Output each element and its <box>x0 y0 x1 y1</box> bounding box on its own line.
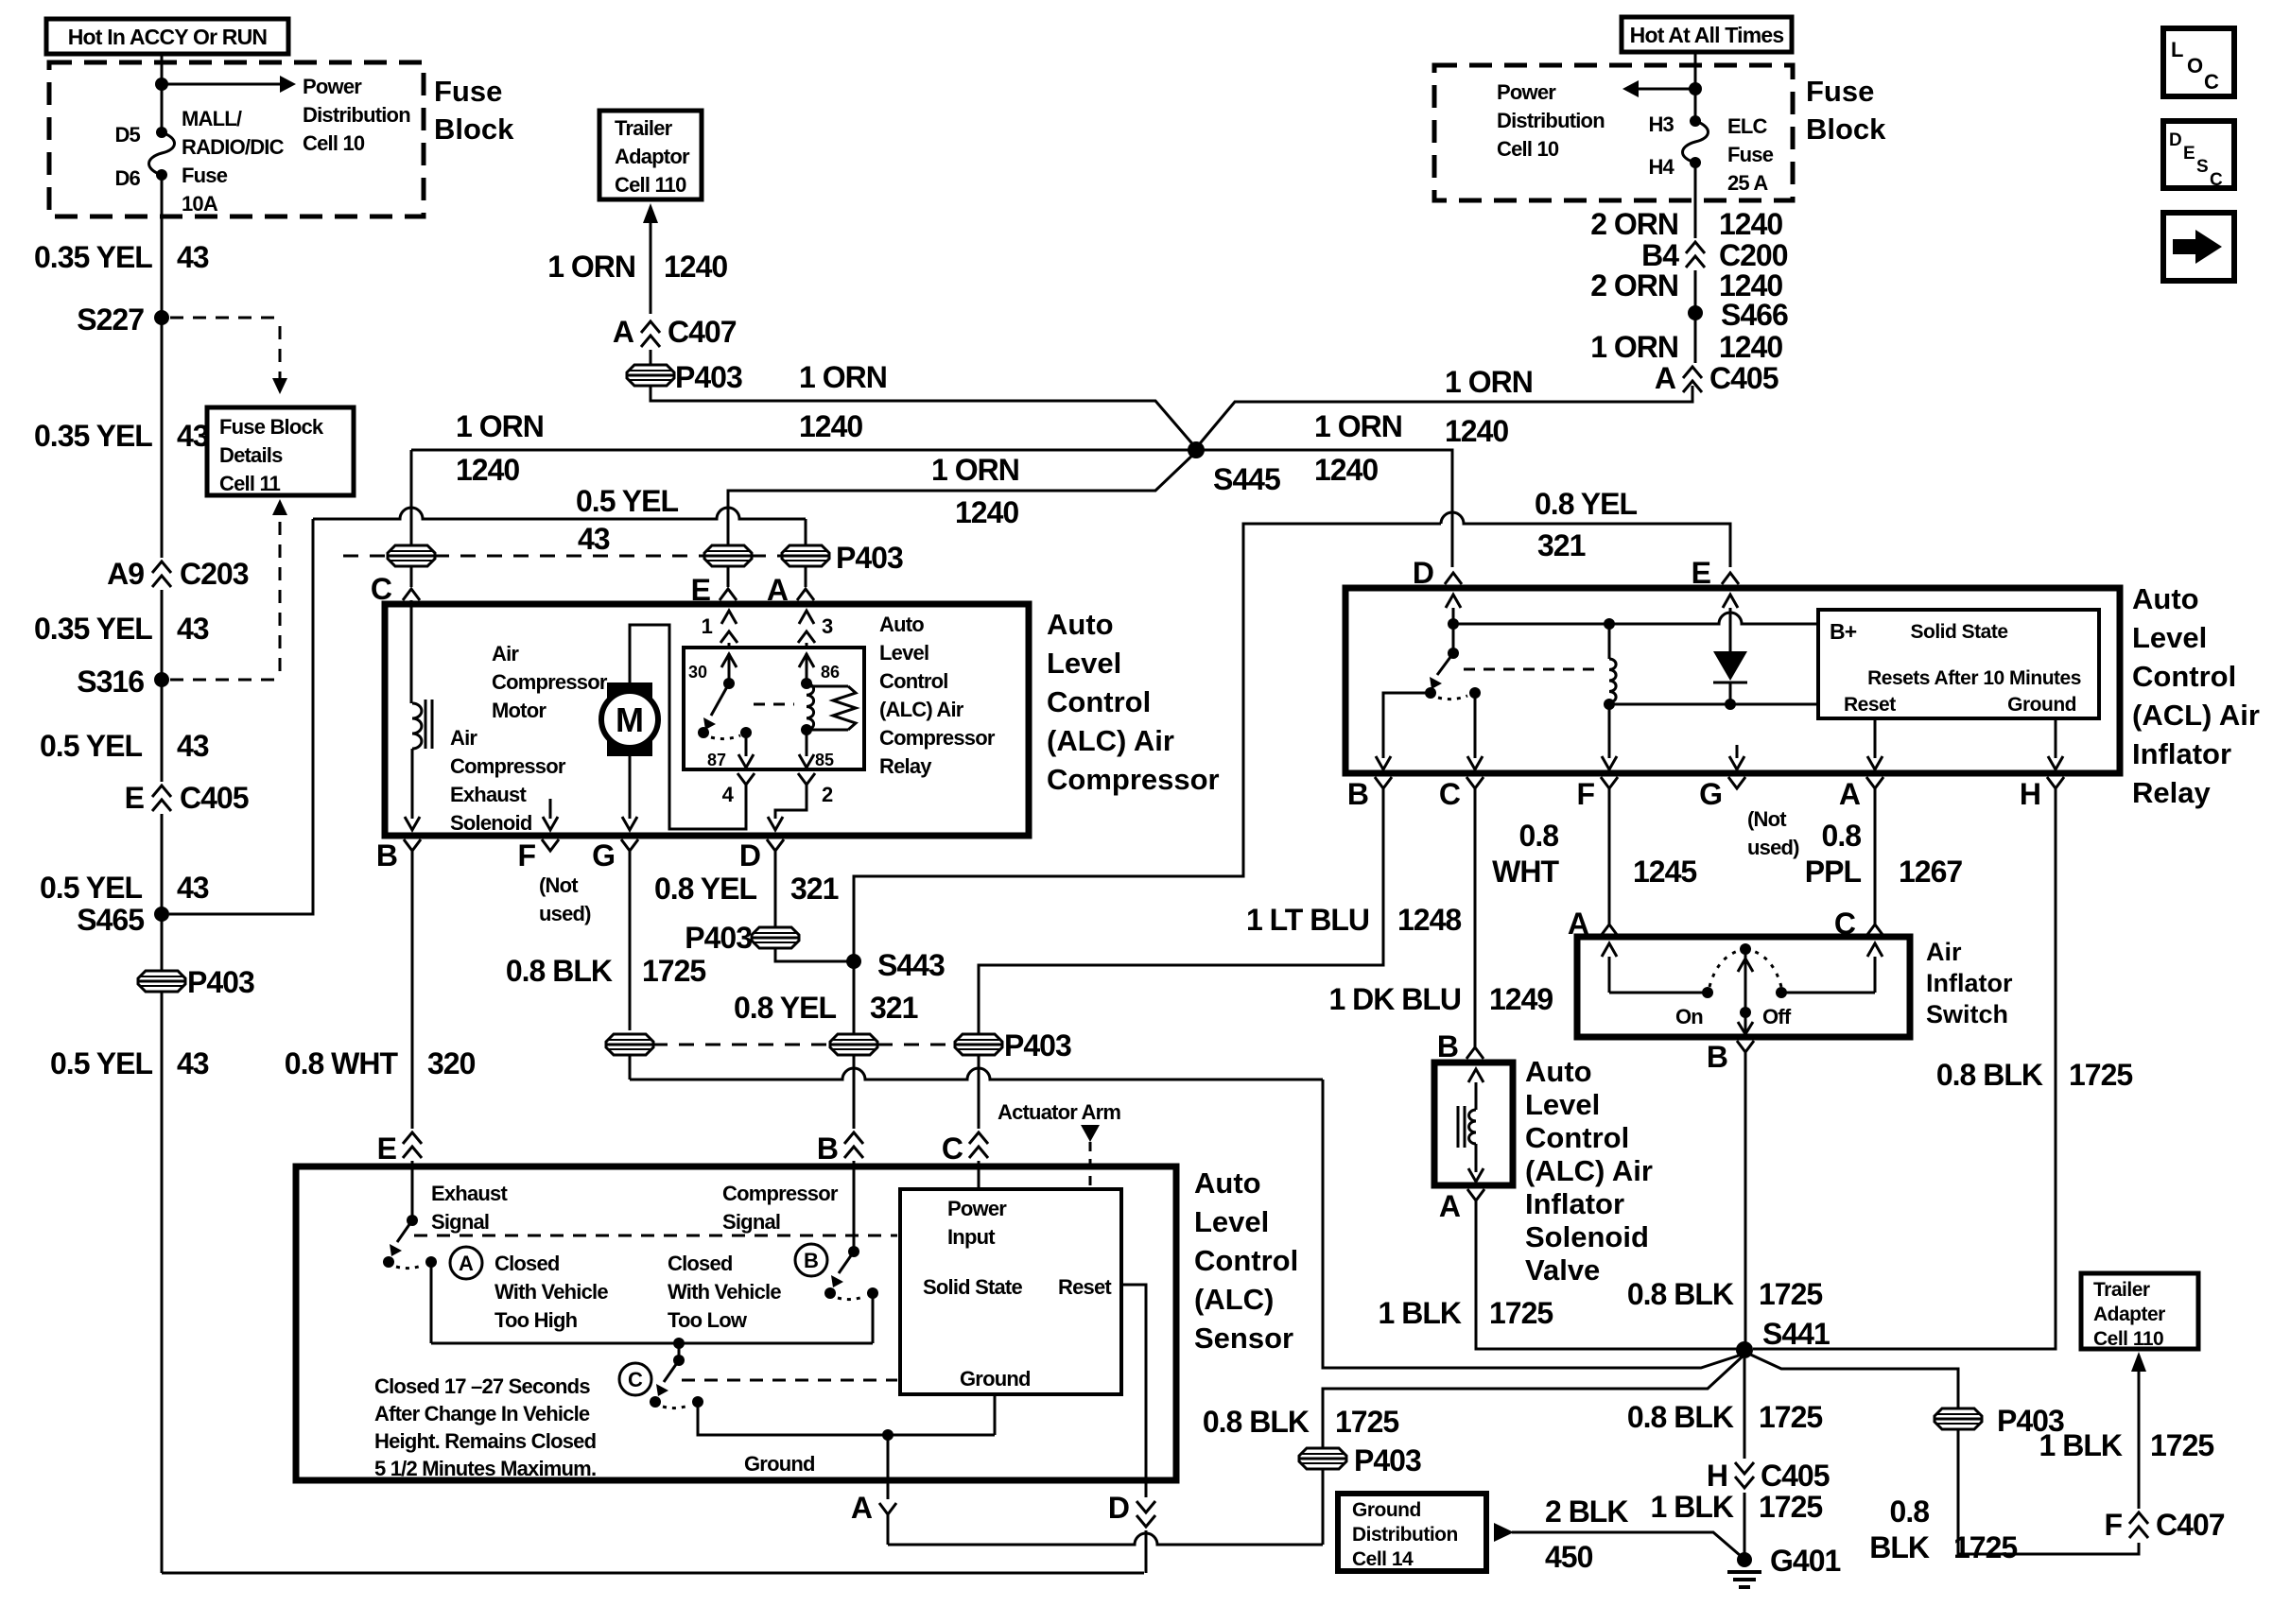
svg-text:P403: P403 <box>187 965 254 999</box>
icon LOC <box>2163 28 2234 96</box>
svg-text:Input: Input <box>947 1225 996 1249</box>
connector inline sensor C <box>969 1132 988 1144</box>
svg-text:0.8: 0.8 <box>1519 819 1559 853</box>
relay solid state box <box>1818 610 2099 718</box>
svg-text:Cell 14: Cell 14 <box>1352 1548 1414 1570</box>
svg-text:C407: C407 <box>668 315 737 349</box>
svg-text:B: B <box>1707 1040 1727 1074</box>
svg-text:C: C <box>942 1132 963 1166</box>
compressor pin B fork <box>404 839 421 851</box>
wire pin4 to motor loop <box>630 625 746 829</box>
connector C405 pin H <box>1735 1462 1754 1474</box>
svg-text:F: F <box>517 838 535 872</box>
harness dashed P403 row2 <box>652 1044 830 1046</box>
wire sensor ground to S441 <box>1323 1355 1744 1449</box>
relay pin D fork <box>1445 573 1462 584</box>
svg-text:1 ORN: 1 ORN <box>1445 365 1533 399</box>
wire sensor A contact down <box>430 1262 433 1343</box>
svg-text:0.8 YEL: 0.8 YEL <box>734 991 836 1025</box>
svg-text:D: D <box>1108 1491 1129 1525</box>
splice S316 <box>154 672 169 687</box>
wire motor to G <box>629 756 632 819</box>
relay pin 85 wire <box>801 724 812 735</box>
svg-text:43: 43 <box>578 522 610 556</box>
ALC sensor box <box>296 1166 1176 1480</box>
svg-text:Fuse: Fuse <box>1806 75 1874 108</box>
relay internal bus B+ <box>1448 618 1459 630</box>
svg-text:0.8 YEL: 0.8 YEL <box>1535 487 1637 521</box>
svg-text:1267: 1267 <box>1899 855 1962 889</box>
wire S441 down to ground <box>1744 1358 1746 1459</box>
svg-text:Air: Air <box>450 726 477 750</box>
svg-text:C405: C405 <box>1761 1459 1830 1493</box>
svg-text:1 ORN: 1 ORN <box>1590 330 1678 364</box>
svg-text:Inflator: Inflator <box>2132 737 2231 770</box>
svg-text:A: A <box>613 315 634 349</box>
svg-text:D5: D5 <box>114 123 140 147</box>
svg-text:C: C <box>1834 907 1856 941</box>
svg-text:E: E <box>2183 144 2195 164</box>
svg-text:1240: 1240 <box>1314 453 1378 487</box>
compressor pin F fork <box>542 839 559 851</box>
svg-text:H: H <box>1707 1459 1727 1493</box>
svg-text:A: A <box>767 573 789 607</box>
wire 2 BLK 450 from ground distribution <box>1494 1523 1514 1542</box>
compressor relay pin 2 fork <box>798 773 815 785</box>
svg-text:Ground: Ground <box>1352 1499 1421 1521</box>
svg-text:2: 2 <box>822 783 833 806</box>
svg-text:Solenoid: Solenoid <box>1525 1220 1649 1253</box>
switch dashed arcs <box>1709 951 1738 987</box>
circle C <box>619 1363 651 1395</box>
sensor switch C arm <box>664 1360 679 1382</box>
svg-text:F: F <box>2104 1508 2122 1542</box>
wire D to S443 <box>775 947 848 961</box>
svg-text:Adaptor: Adaptor <box>615 145 690 168</box>
svg-text:(ALC) Air: (ALC) Air <box>879 698 964 721</box>
wire switch B to S441 <box>1744 1052 1747 1343</box>
ALC air inflator solenoid valve box <box>1434 1063 1513 1185</box>
svg-text:S445: S445 <box>1213 462 1280 496</box>
svg-text:0.8: 0.8 <box>1822 819 1862 853</box>
svg-text:O: O <box>2187 54 2203 78</box>
svg-text:321: 321 <box>870 991 918 1025</box>
svg-text:0.8 BLK: 0.8 BLK <box>1203 1405 1310 1439</box>
svg-text:Motor: Motor <box>492 699 547 722</box>
svg-text:S: S <box>2196 157 2209 177</box>
relay switch dashed contact <box>711 735 740 739</box>
svg-text:Auto: Auto <box>1525 1055 1592 1088</box>
svg-text:Block: Block <box>1806 112 1886 146</box>
svg-text:Trailer: Trailer <box>615 116 673 140</box>
svg-text:Level: Level <box>1194 1205 1269 1238</box>
connector C407 pin F <box>2129 1512 2148 1524</box>
compressor pin D fork <box>767 839 784 851</box>
svg-text:Cell 10: Cell 10 <box>1497 137 1559 161</box>
connector P403 on sensor ground <box>1299 1448 1346 1469</box>
svg-text:Power: Power <box>303 75 362 98</box>
splice S227 <box>154 310 169 325</box>
svg-text:25 A: 25 A <box>1727 171 1768 195</box>
svg-text:S316: S316 <box>77 665 144 699</box>
switch pivot <box>1740 943 1751 955</box>
wire arrow to Power Distribution (right) <box>1639 88 1695 91</box>
wire solid state ground <box>994 1394 997 1435</box>
svg-text:Control: Control <box>1525 1121 1629 1154</box>
svg-text:1240: 1240 <box>1719 207 1782 241</box>
svg-text:1725: 1725 <box>1953 1530 2017 1564</box>
svg-text:G: G <box>1699 777 1722 811</box>
sensor switch B (compressor) <box>848 1246 859 1257</box>
splice S465 <box>154 907 169 922</box>
svg-text:5 1/2 Minutes Maximum.: 5 1/2 Minutes Maximum. <box>374 1457 596 1480</box>
svg-text:1240: 1240 <box>799 409 862 443</box>
wire 2 ORN 1240 (2) <box>1694 270 1697 307</box>
svg-text:0.5 YEL: 0.5 YEL <box>40 871 142 905</box>
svg-text:Inflator: Inflator <box>1525 1187 1624 1220</box>
svg-text:Compressor: Compressor <box>1047 763 1220 796</box>
connector P403 on sensor B wire <box>830 1034 877 1055</box>
harness dashed P403 row1 <box>343 555 389 558</box>
connector P403 on C407 wire <box>627 365 674 386</box>
svg-text:B: B <box>1347 777 1368 811</box>
wire relay contact2 to pin C <box>1474 693 1477 758</box>
splice S443 <box>846 954 861 969</box>
svg-text:C: C <box>1439 777 1461 811</box>
power label box: Hot In ACCY Or RUN <box>46 19 288 54</box>
svg-text:S441: S441 <box>1762 1317 1830 1351</box>
splice S441 <box>1736 1341 1753 1358</box>
wire S441 to trailer branch <box>1744 1352 1958 1409</box>
svg-text:85: 85 <box>815 751 834 769</box>
svg-text:S443: S443 <box>877 948 945 982</box>
wire S443 up to relay D feed <box>854 524 1441 961</box>
svg-text:Sensor: Sensor <box>1194 1322 1293 1355</box>
svg-text:WHT: WHT <box>1492 855 1559 889</box>
wire 0.35 YEL 43 (2) <box>161 323 164 558</box>
icon DESC <box>2163 121 2234 188</box>
svg-text:Fuse: Fuse <box>434 75 502 108</box>
svg-text:Closed: Closed <box>495 1252 560 1275</box>
compressor pin E fork <box>720 589 737 600</box>
trailer adaptor box (bottom) <box>2081 1273 2198 1349</box>
compressor relay inner box <box>684 648 864 769</box>
svg-text:D: D <box>2169 130 2182 150</box>
svg-text:1240: 1240 <box>456 453 519 487</box>
relay G stub <box>1736 745 1739 758</box>
wire 2 ORN 1240 below fuse <box>1694 163 1697 238</box>
svg-text:C203: C203 <box>180 557 249 591</box>
svg-text:Fuse: Fuse <box>1727 143 1774 166</box>
relay pin G fork <box>1728 777 1745 788</box>
svg-text:Solid State: Solid State <box>1910 621 2007 643</box>
sensor switch C stem <box>678 1343 681 1360</box>
svg-text:Trailer: Trailer <box>2093 1279 2150 1301</box>
svg-text:F: F <box>1576 777 1594 811</box>
wire sensor A ground run <box>888 1533 1323 1545</box>
svg-text:1: 1 <box>702 614 713 638</box>
svg-text:Cell 10: Cell 10 <box>303 131 365 155</box>
connector P403 on D wire <box>752 927 799 948</box>
svg-text:Ground: Ground <box>744 1452 815 1476</box>
relay pin F fork <box>1601 777 1618 788</box>
wire coil bottom to solid state <box>1609 703 1818 706</box>
svg-text:Level: Level <box>879 641 928 665</box>
svg-text:2 ORN: 2 ORN <box>1590 207 1678 241</box>
sensor switch A (exhaust) <box>407 1215 418 1226</box>
svg-text:2 ORN: 2 ORN <box>1590 268 1678 302</box>
svg-text:used): used) <box>1747 836 1799 859</box>
svg-text:With Vehicle: With Vehicle <box>668 1280 781 1304</box>
svg-text:B4: B4 <box>1641 238 1679 272</box>
svg-text:Auto: Auto <box>2132 582 2199 615</box>
svg-text:B: B <box>804 1249 819 1272</box>
connector C405 pin E (left) <box>152 786 171 797</box>
svg-text:Off: Off <box>1762 1005 1792 1028</box>
relay switch dashed contact arc <box>1438 696 1467 700</box>
svg-text:Details: Details <box>219 443 283 467</box>
svg-text:0.35 YEL: 0.35 YEL <box>34 612 152 646</box>
svg-text:With Vehicle: With Vehicle <box>495 1280 608 1304</box>
relay pin H fork <box>2047 777 2064 788</box>
svg-text:Resets After 10 Minutes: Resets After 10 Minutes <box>1867 667 2081 689</box>
wire 1 ORN 1240 below S466 <box>1694 319 1697 363</box>
compressor pin 1 <box>721 611 737 624</box>
wire 0.8 WHT 1245 relay F to switch A <box>1608 788 1611 898</box>
svg-text:Too Low: Too Low <box>668 1308 748 1332</box>
splice S445 <box>1188 441 1205 458</box>
switch pin A arrow <box>1602 943 1617 957</box>
compressor F stub arrow <box>549 799 552 819</box>
connector P403 on E pin <box>704 545 752 566</box>
svg-text:Signal: Signal <box>722 1210 780 1234</box>
relay pin 86 wire <box>799 654 814 667</box>
svg-text:Auto: Auto <box>1047 608 1114 641</box>
svg-text:4: 4 <box>722 783 735 806</box>
dashed wire S227 to Fuse Block Details <box>170 317 280 320</box>
wire coil bottom to pin F <box>1608 704 1611 758</box>
svg-text:450: 450 <box>1545 1540 1593 1574</box>
svg-text:1240: 1240 <box>1719 330 1782 364</box>
svg-text:B: B <box>817 1132 838 1166</box>
svg-text:H: H <box>2020 777 2040 811</box>
connector C200 pin B4 <box>1686 242 1705 253</box>
svg-text:MALL/: MALL/ <box>182 107 242 130</box>
connector C405 pin A (right) <box>1683 367 1702 378</box>
svg-text:Inflator: Inflator <box>1926 969 2013 997</box>
svg-text:Valve: Valve <box>1525 1253 1600 1287</box>
ground distribution box <box>1338 1494 1486 1571</box>
svg-text:0.35 YEL: 0.35 YEL <box>34 419 152 453</box>
wire below C407 <box>650 350 652 367</box>
svg-text:1 ORN: 1 ORN <box>931 453 1019 487</box>
svg-text:used): used) <box>539 902 591 925</box>
svg-text:1249: 1249 <box>1489 982 1553 1016</box>
svg-text:Height. Remains Closed: Height. Remains Closed <box>374 1429 596 1453</box>
svg-text:1725: 1725 <box>1759 1277 1822 1311</box>
wire E pin to fork <box>727 565 730 587</box>
trailer adaptor box (top) <box>599 111 702 199</box>
svg-text:Distribution: Distribution <box>1352 1524 1458 1546</box>
svg-text:Signal: Signal <box>431 1210 489 1234</box>
svg-text:1 DK BLU: 1 DK BLU <box>1328 982 1461 1016</box>
circle B <box>795 1244 827 1276</box>
svg-text:E: E <box>125 781 145 815</box>
svg-text:Control: Control <box>2132 660 2236 693</box>
sensor switch C contact arc <box>663 1405 690 1408</box>
svg-text:P403: P403 <box>685 921 752 955</box>
svg-text:10A: 10A <box>182 192 218 216</box>
connector C203 pin A9 <box>152 561 171 573</box>
svg-text:Air: Air <box>1926 938 1962 966</box>
svg-text:C405: C405 <box>1709 361 1778 395</box>
wire to trailer adaptor (bottom) <box>2138 1368 2141 1509</box>
wire 0.8 PPL 1267 relay A to switch C <box>1874 788 1877 898</box>
svg-text:1725: 1725 <box>2150 1428 2213 1462</box>
wire 1 BLK 1725 valve A to S441 <box>1476 1201 1738 1349</box>
wire sensor C contact to ground bus <box>698 1402 995 1435</box>
svg-text:321: 321 <box>790 872 839 906</box>
compressor pin C fork <box>403 589 420 600</box>
svg-text:Exhaust: Exhaust <box>450 783 527 806</box>
connector inline sensor D <box>1136 1501 1155 1512</box>
air compressor motor M <box>607 682 652 700</box>
relay pin E arrow and diode feed <box>1723 595 1738 608</box>
svg-text:S227: S227 <box>77 302 144 337</box>
switch pin B fork <box>1737 1041 1754 1052</box>
connector P403 bottom right <box>1935 1408 1982 1429</box>
svg-text:1 BLK: 1 BLK <box>1379 1296 1462 1330</box>
relay dashed actuation link (inflator) <box>1464 668 1596 671</box>
dashed wire S316 to Fuse Block Details <box>170 679 280 682</box>
wire relay D drop <box>1451 566 1454 569</box>
svg-text:0.8 YEL: 0.8 YEL <box>654 872 756 906</box>
svg-text:1725: 1725 <box>642 954 705 988</box>
wire C pin to fork <box>410 565 413 587</box>
svg-text:1245: 1245 <box>1633 855 1696 889</box>
svg-text:1 LT BLU: 1 LT BLU <box>1246 903 1369 937</box>
svg-text:43: 43 <box>177 240 209 274</box>
svg-text:1 BLK: 1 BLK <box>2039 1428 2123 1462</box>
svg-text:1725: 1725 <box>1489 1296 1553 1330</box>
svg-text:G401: G401 <box>1770 1544 1840 1578</box>
wire from Hot In ACCY to fuse <box>161 54 164 132</box>
relay pin 30 wire <box>721 654 737 667</box>
wire bottom run to sensor D <box>162 1572 1144 1575</box>
wire 0.5 YEL 43 (2) <box>161 814 164 908</box>
relay pin C fork <box>1466 777 1484 788</box>
sensor dashed line AB <box>414 1235 897 1237</box>
switch contact wires <box>1609 992 1708 994</box>
wire 1 DK BLU 1249 relay C to valve B <box>1474 788 1477 1032</box>
svg-text:Switch: Switch <box>1926 1000 2008 1028</box>
wire 0.35 YEL 43 (3) <box>161 590 164 674</box>
connector P403 on left trunk <box>138 971 185 992</box>
svg-text:3: 3 <box>822 614 833 638</box>
svg-text:B: B <box>1437 1029 1458 1063</box>
svg-text:After Change In Vehicle: After Change In Vehicle <box>374 1402 590 1425</box>
wire 0.8 YEL 321 hop to relay E <box>1441 512 1730 567</box>
power label box: Hot At All Times <box>1622 17 1792 52</box>
wire left trunk to bottom <box>161 920 164 1573</box>
svg-text:Closed: Closed <box>668 1252 733 1275</box>
wire pin2 to compressor D <box>775 785 807 819</box>
wire C pin to solenoid <box>410 600 413 703</box>
svg-text:A: A <box>459 1252 474 1275</box>
svg-text:(ALC) Air: (ALC) Air <box>1525 1154 1653 1187</box>
valve pin A fork <box>1467 1189 1484 1201</box>
wire sensor B below P403 <box>853 1054 856 1129</box>
svg-text:43: 43 <box>177 612 209 646</box>
relay pin A fork <box>1866 777 1883 788</box>
wire arrow to Power Distribution Cell 10 <box>162 83 280 86</box>
svg-text:A: A <box>851 1491 873 1525</box>
svg-text:1725: 1725 <box>2069 1058 2132 1092</box>
wire C405 to corner <box>1692 395 1694 402</box>
svg-text:Reset: Reset <box>1058 1275 1112 1299</box>
svg-text:Solenoid: Solenoid <box>450 811 532 835</box>
wire 1 ORN trunk C to D <box>411 450 1452 567</box>
svg-text:1240: 1240 <box>955 495 1018 529</box>
relay pin E fork <box>1722 573 1739 584</box>
air inflator switch box <box>1577 937 1910 1037</box>
wire solid state reset to pin A <box>1874 718 1877 758</box>
diode CR1 <box>1713 651 1747 681</box>
svg-text:(ALC): (ALC) <box>1194 1283 1274 1316</box>
svg-text:P403: P403 <box>836 541 903 575</box>
svg-text:(ACL) Air: (ACL) Air <box>2132 699 2260 732</box>
svg-text:P403: P403 <box>675 360 742 394</box>
svg-text:B: B <box>376 838 397 872</box>
wire 0.35 YEL 43 below fuse <box>161 175 164 312</box>
svg-text:C: C <box>2204 70 2219 94</box>
wire S465 branch riser <box>169 519 313 914</box>
connector P403 on sensor C wire <box>955 1034 1002 1055</box>
svg-text:Too High: Too High <box>495 1308 578 1332</box>
wire 0.8 BLK 1725 relay H to S441 <box>1753 788 2056 1349</box>
svg-text:Level: Level <box>2132 621 2207 654</box>
relay coil 86-85 <box>807 683 814 730</box>
wire C pin drop <box>410 450 413 546</box>
wire sensor B into box <box>853 1161 856 1252</box>
svg-text:0.8 BLK: 0.8 BLK <box>506 954 613 988</box>
svg-text:Solid State: Solid State <box>923 1275 1022 1299</box>
svg-text:Control: Control <box>879 669 948 693</box>
svg-text:S466: S466 <box>1721 298 1788 332</box>
svg-text:Hot In ACCY Or RUN: Hot In ACCY Or RUN <box>68 25 268 49</box>
wire P403 to C407 F <box>1958 1428 2139 1554</box>
svg-text:A9: A9 <box>107 557 144 591</box>
relay pin B fork <box>1375 777 1392 788</box>
svg-text:Distribution: Distribution <box>1497 109 1605 132</box>
fuse MALL/RADIO/DIC 10A symbol <box>156 127 167 138</box>
svg-text:1240: 1240 <box>1445 414 1508 448</box>
wire 0.5 YEL 43 horizontal with hops <box>313 508 806 519</box>
connector P403 on C pin <box>388 545 435 566</box>
sensor switch A contact arc <box>396 1265 424 1269</box>
svg-text:Closed 17 –27 Seconds: Closed 17 –27 Seconds <box>374 1374 590 1398</box>
icon next arrow <box>2163 213 2234 281</box>
sensor switch B contact arc <box>838 1296 865 1300</box>
wire 1 BLK 1725 to G401 <box>1744 1493 1746 1553</box>
svg-text:1 BLK: 1 BLK <box>1651 1490 1734 1524</box>
wire sensor ground to pin A <box>887 1435 890 1499</box>
svg-text:H3: H3 <box>1648 112 1674 136</box>
wire sensor C below P403 <box>978 1054 980 1129</box>
svg-text:Ground: Ground <box>2007 694 2076 716</box>
svg-text:A: A <box>1568 907 1589 941</box>
svg-text:Fuse: Fuse <box>182 164 228 187</box>
